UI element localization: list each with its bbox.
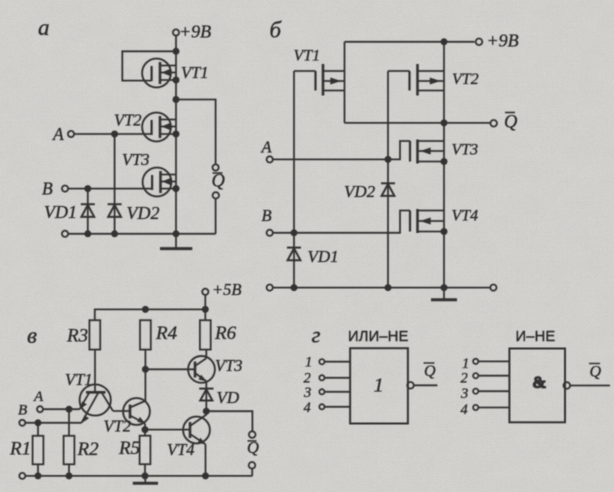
svg-text:В: В [262, 206, 272, 225]
terminal: rail left [62, 231, 68, 237]
wire: input B to VT3 gate [68, 188, 152, 190]
gate U1 (NOR) body [350, 348, 408, 423]
node: VT2 source [173, 131, 178, 136]
ground [175, 234, 177, 248]
node: VD2 to rail [112, 231, 117, 236]
node: VT4 source [441, 229, 446, 234]
svg-text:&: & [533, 375, 546, 392]
wire: +5V drop [204, 295, 206, 320]
wire: main vertical rail [175, 36, 177, 234]
transistor VT2 [142, 113, 176, 142]
svg-text:R3: R3 [66, 326, 88, 347]
svg-text:Q: Q [212, 172, 226, 192]
wire: to output Q [176, 100, 216, 165]
svg-text:4: 4 [304, 400, 311, 416]
wire: VT1 gate feedback loop [122, 51, 176, 80]
svg-text:VT4: VT4 [167, 440, 195, 459]
terminal Q [490, 120, 497, 127]
svg-text:VD1: VD1 [44, 202, 77, 222]
node: A to R2 [66, 407, 71, 412]
node: output branch [173, 97, 178, 102]
svg-text:2: 2 [461, 371, 468, 387]
transistor VT1 [294, 42, 345, 123]
node: VT4 base tap [142, 427, 147, 432]
wire: ground rail [25, 475, 252, 477]
node: VT1 source [173, 77, 178, 82]
transistor VT2 [123, 398, 150, 425]
svg-text:А: А [52, 124, 64, 144]
svg-text:R6: R6 [214, 323, 237, 344]
terminal +9V [476, 39, 483, 46]
wire: lower Q to rail [251, 469, 253, 476]
svg-text:R2: R2 [77, 439, 100, 460]
ground [144, 476, 146, 483]
svg-text:а: а [38, 15, 50, 40]
wire: to output Q [206, 411, 252, 431]
wire: VT1 gate to input B [293, 71, 295, 288]
svg-text:VT2: VT2 [114, 111, 142, 130]
node: output junction [441, 120, 446, 125]
terminal: rail right [490, 285, 496, 291]
wire: VT4 emitter to rail [205, 444, 207, 476]
node: rail to R6 [203, 307, 208, 312]
node: VD1 to rail [291, 285, 296, 290]
wire: VT2 gate to input A [387, 71, 389, 288]
svg-text:VT1: VT1 [294, 48, 321, 65]
svg-text:А: А [33, 389, 44, 405]
svg-text:R5: R5 [118, 438, 140, 459]
node: VD2 to rail [385, 285, 390, 290]
svg-text:1: 1 [305, 355, 312, 371]
wire: to VT3 base [145, 368, 195, 370]
transistor VT3 [410, 140, 444, 164]
node: VT3 base tap [143, 367, 148, 372]
node: rail to R4 [143, 307, 148, 312]
node: gate feedback junction [173, 49, 178, 54]
terminal Q lower [213, 192, 219, 198]
terminal: rail left [19, 473, 25, 479]
transistor VT4 [410, 209, 444, 233]
diode VD [199, 389, 213, 401]
node: R2 to rail [66, 473, 71, 478]
svg-text:А: А [261, 138, 273, 157]
svg-text:VD2: VD2 [127, 203, 160, 223]
resistor R5 [140, 436, 151, 465]
node: VD2 tap on A [112, 131, 117, 136]
ground [443, 288, 445, 299]
terminal Q lower [249, 462, 256, 469]
wire: R4 to VT2 collector [144, 350, 146, 401]
node: VT4 to rail [441, 285, 446, 290]
svg-text:б: б [270, 18, 283, 43]
transistor VT2 [388, 42, 444, 288]
node: VD1 to rail [85, 231, 90, 236]
svg-text:VT1: VT1 [65, 370, 93, 389]
svg-text:ИЛИ–НЕ: ИЛИ–НЕ [348, 329, 409, 345]
resistor R4 [140, 320, 151, 349]
gate U2 inversion bubble [564, 382, 571, 389]
svg-text:R1: R1 [9, 439, 31, 460]
diode VD1 [81, 189, 95, 234]
terminal Q upper [213, 164, 219, 170]
node: VT3 source [441, 159, 446, 164]
svg-text:Q: Q [504, 113, 518, 133]
svg-text:+5В: +5В [212, 280, 241, 299]
transistor VT1 [79, 384, 113, 423]
node: B to R1 [35, 420, 40, 425]
svg-text:3: 3 [460, 386, 468, 402]
transistor VT1 [142, 59, 176, 88]
node: gate line to A wire [385, 157, 390, 162]
svg-text:VT3: VT3 [122, 150, 150, 169]
wire: top rail [95, 309, 206, 320]
wire: ground rail [68, 233, 216, 235]
gate U2 (NAND) body [509, 349, 565, 423]
wire: U2 output [570, 385, 610, 387]
svg-text:в: в [27, 323, 37, 348]
svg-text:VT4: VT4 [452, 208, 479, 225]
svg-text:+9В: +9В [179, 22, 211, 42]
svg-text:R4: R4 [155, 323, 178, 344]
svg-text:3: 3 [303, 385, 311, 401]
wire: VT2 emitter chain [144, 424, 146, 436]
svg-text:4: 4 [461, 402, 468, 418]
gate U1 inversion bubble [407, 382, 414, 389]
svg-text:И–НЕ: И–НЕ [516, 329, 556, 345]
resistor R1 [37, 423, 39, 436]
svg-text:В: В [42, 179, 53, 199]
node: output junction [204, 409, 209, 414]
node: VT3 source [173, 186, 178, 191]
svg-text:VD1: VD1 [308, 247, 339, 266]
svg-text:VT2: VT2 [452, 71, 479, 88]
wire: input B [273, 211, 410, 233]
svg-text:Q: Q [424, 363, 436, 380]
svg-text:VD2: VD2 [344, 182, 376, 201]
diode VD1 [287, 248, 301, 261]
wire: U1 output [414, 384, 438, 386]
wire: output line [345, 122, 491, 124]
wire: VT1 collector to VT2 base [113, 410, 130, 412]
svg-text:Q: Q [590, 364, 602, 381]
wire: R3 to VT1 base [94, 350, 96, 393]
svg-text:VT1: VT1 [181, 63, 209, 82]
diode VD2 [108, 134, 122, 234]
svg-text:VT3: VT3 [215, 356, 243, 375]
wire: input A [273, 141, 410, 159]
node: gate line to B wire [291, 230, 296, 235]
wire: input B [25, 422, 81, 424]
wire: +9V rail [345, 41, 475, 43]
terminal +9V [173, 29, 179, 35]
node: R5 to rail [142, 473, 147, 478]
resistor R2 [68, 409, 70, 436]
node: VT4 to rail [203, 473, 208, 478]
terminal: rail left [267, 285, 273, 291]
transistor VT3 [188, 356, 215, 383]
svg-text:1: 1 [374, 375, 384, 397]
resistor R3 [89, 320, 100, 349]
svg-text:+9В: +9В [487, 31, 519, 51]
svg-text:VD: VD [217, 388, 240, 407]
wire: to VT4 base [145, 429, 190, 431]
node: VT2 to rail [441, 39, 446, 44]
transistor VT4 [183, 411, 210, 444]
wire: R6 to VT3 collector [205, 350, 207, 359]
node: R1 to rail [35, 473, 40, 478]
diode VD2 [381, 183, 395, 196]
node: rail center [173, 231, 178, 236]
wire: input A [43, 408, 80, 410]
terminal Q upper [249, 431, 256, 438]
svg-text:В: В [18, 403, 27, 419]
wire: ground rail [273, 287, 491, 289]
wire: lower output to rail [215, 199, 217, 234]
wire: input A to VT2 gate [74, 133, 152, 135]
resistor R6 [200, 320, 211, 349]
transistor VT3 [143, 168, 176, 197]
svg-text:VT2: VT2 [104, 417, 132, 436]
svg-text:VT3: VT3 [452, 142, 479, 159]
node: VD1 tap on B [85, 186, 90, 191]
svg-text:г: г [312, 323, 321, 348]
wire: VT3 emitter to VD [205, 381, 207, 411]
terminal +5V [202, 289, 208, 295]
